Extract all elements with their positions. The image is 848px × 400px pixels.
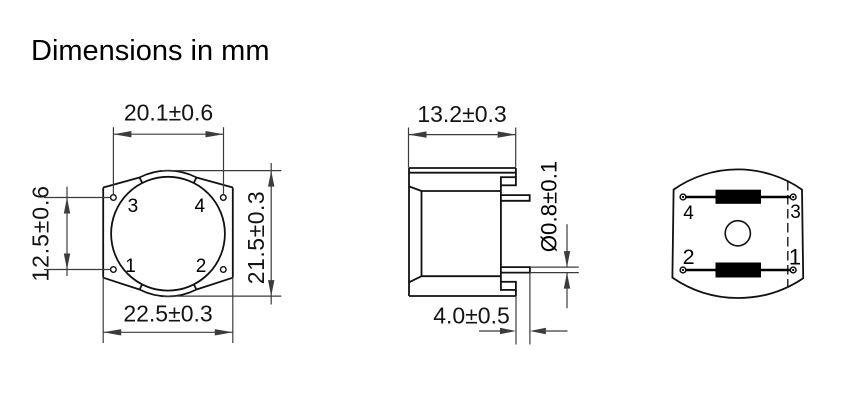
svg-text:Dimensions in mm: Dimensions in mm (31, 35, 270, 67)
pin pad 3 (790, 194, 796, 200)
body right edge lower (515, 290, 517, 296)
plate outline (672, 169, 803, 298)
dimension 12.5±0.6 extension lines (44, 198, 110, 270)
pin lower (side) (501, 267, 530, 273)
dimension 21.5±0.3 extension lines (162, 171, 281, 297)
recess chamfer top-left (409, 186, 422, 191)
dimension 4.0±0.5 line left (479, 330, 500, 332)
dimension 22.5±0.3 extension lines (103, 278, 233, 343)
dimension 13.2±0.3 extension lines (409, 128, 516, 168)
pin hole 2 (221, 267, 227, 273)
lead wire bottom (683, 269, 793, 271)
dimension 12.5±0.6 arrowheads (64, 198, 70, 270)
dimension 20.1±0.6 arrowheads (113, 131, 223, 137)
plate chamfer top-right (197, 178, 233, 188)
center mounting hole (725, 221, 750, 246)
svg-text:2: 2 (196, 256, 207, 277)
dimension 21.5±0.3 line (270, 163, 272, 305)
svg-text:Ø0.8±0.1: Ø0.8±0.1 (537, 161, 562, 253)
dimension Ø0.8±0.1 extension lines (530, 267, 579, 273)
dimension 13.2±0.3 line (409, 134, 516, 136)
svg-text:12.5±0.6: 12.5±0.6 (28, 185, 54, 282)
pin hole 1 (111, 267, 117, 273)
plate outer arc top (140, 171, 197, 178)
lead wire top (683, 196, 793, 198)
svg-text:3: 3 (790, 202, 801, 223)
pin hole 3 (111, 195, 117, 201)
svg-text:1: 1 (789, 245, 801, 270)
dimension 12.5±0.6 line (66, 187, 68, 276)
hidden edge dashed line (787, 181, 789, 287)
body left edge (408, 168, 410, 296)
toroid circle (111, 177, 225, 291)
plate corner tick top-right (194, 178, 197, 183)
body top rim line (409, 172, 516, 174)
svg-text:20.1±0.6: 20.1±0.6 (124, 100, 213, 126)
plate left edge (102, 188, 104, 278)
svg-text:21.5±0.3: 21.5±0.3 (243, 191, 269, 284)
plate chamfer bottom-right (197, 278, 233, 290)
body inner right edge (500, 185, 502, 281)
dimension 21.5±0.3 arrowheads (268, 171, 274, 297)
pin pad 2 (680, 267, 686, 273)
svg-text:4.0±0.5: 4.0±0.5 (433, 302, 510, 328)
dimension 22.5±0.3 line (103, 331, 233, 333)
svg-text:13.2±0.3: 13.2±0.3 (417, 101, 506, 127)
body top face (409, 167, 516, 169)
pin upper (side) (501, 195, 530, 201)
recess top edge (422, 190, 501, 192)
dimension Ø0.8±0.1 arrowheads (564, 251, 570, 289)
svg-text:3: 3 (128, 196, 139, 217)
bottom notch window (501, 282, 516, 290)
dimension 4.0±0.5 extension lines (516, 273, 530, 345)
plate chamfer top-left (103, 178, 139, 188)
coil winding top (716, 190, 762, 204)
recess left edge (421, 191, 423, 276)
svg-text:4: 4 (195, 196, 206, 217)
plate corner tick top-left (140, 178, 143, 183)
dimension 22.5±0.3 arrowheads (103, 329, 233, 335)
plate chamfer bottom-left (103, 278, 139, 290)
dimension 4.0±0.5 line right (546, 330, 568, 332)
dimension 4.0±0.5 arrowheads (500, 328, 546, 334)
pin pad 4 (680, 194, 686, 200)
svg-text:22.5±0.3: 22.5±0.3 (123, 301, 212, 327)
body bottom face (409, 295, 516, 297)
plate outer arc bottom (140, 290, 197, 297)
recess bottom edge (422, 275, 501, 277)
recess chamfer bottom-left (409, 276, 422, 282)
pin hole 4 (221, 195, 227, 201)
svg-text:2: 2 (683, 245, 695, 269)
pin pad 1 (790, 267, 796, 273)
top notch window (501, 177, 516, 185)
dimension 20.1±0.6 extension lines (113, 127, 223, 194)
plate corner tick bottom-left (140, 284, 143, 289)
body right edge upper (515, 168, 517, 177)
plate right edge (232, 188, 234, 278)
svg-text:1: 1 (125, 256, 136, 277)
dimension 13.2±0.3 arrowheads (409, 131, 516, 137)
dimension Ø0.8±0.1 line upper (566, 224, 568, 267)
coil winding bottom (716, 263, 762, 278)
plate corner tick bottom-right (194, 284, 197, 289)
dimension 20.1±0.6 line (113, 133, 223, 135)
svg-text:4: 4 (683, 203, 694, 224)
dimension Ø0.8±0.1 line lower (566, 273, 568, 309)
